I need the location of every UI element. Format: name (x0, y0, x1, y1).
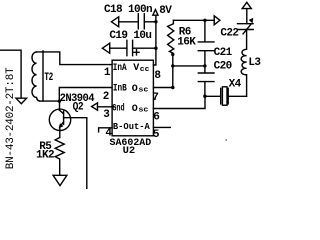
junction dot rail/C21 (203, 19, 206, 22)
connector arrow pin 3 Gnd (92, 103, 98, 110)
label B-Out-A (113, 121, 150, 132)
svg-text:7: 7 (152, 92, 158, 104)
label InA (113, 63, 127, 74)
wire C19 to 8V rail (133, 47, 156, 49)
label InB (113, 84, 127, 95)
svg-text:O: O (132, 104, 138, 115)
svg-text:8V: 8V (159, 5, 172, 17)
label R5 (39, 141, 52, 153)
variable capacitor C22 (238, 24, 254, 34)
wire C19 arrow to cap (110, 47, 127, 49)
capacitor C20 (198, 66, 214, 96)
svg-text:sc: sc (138, 107, 148, 115)
svg-text:Gnd: Gnd (112, 102, 124, 114)
junction dot collector node (58, 99, 61, 102)
junction dot R6/C-tap (171, 64, 174, 67)
connector arrow right (osc out) (214, 16, 220, 25)
wire off-page left rail (0, 50, 21, 98)
junction dot R6 bottom (171, 53, 174, 56)
svg-text:16K: 16K (177, 37, 196, 49)
pin number 6 (153, 111, 159, 123)
svg-text:C19 10u: C19 10u (109, 30, 151, 42)
crystal X4 (205, 87, 247, 105)
label Gnd (112, 102, 124, 114)
label 16K (177, 37, 196, 49)
svg-text:L3: L3 (248, 57, 261, 69)
wire T2 top to pin 1 (step) (37, 52, 112, 65)
svg-text:BN-43-2402-2T:8T: BN-43-2402-2T:8T (5, 67, 17, 169)
wire R6 top rail (173, 19, 214, 21)
connector arrow down T2 left (16, 98, 27, 104)
label SA602AD (110, 137, 152, 149)
label BN-43-2402-2T:8T (5, 67, 17, 169)
label C22 (220, 27, 238, 39)
pin number 4 (105, 127, 112, 139)
pin number 2 (103, 91, 109, 103)
junction dot pin7/R6 (171, 86, 174, 89)
svg-text:InB: InB (113, 84, 127, 95)
antenna arrow top right (242, 2, 251, 8)
plus sign C19 (134, 50, 139, 55)
label C21 (214, 47, 233, 59)
wire antenna to C22 (246, 9, 248, 24)
op-amp box U2 SA602AD (112, 60, 153, 136)
wire Q2 emitter to R5 (59, 130, 61, 137)
wire pin 4 stub (99, 128, 112, 132)
transformer T2 winding (32, 52, 40, 101)
svg-text:B-Out-A: B-Out-A (113, 121, 150, 132)
wire pin 6 to crystal node (153, 96, 205, 108)
label R6 (179, 26, 191, 38)
connector arrow C18 left (111, 17, 118, 27)
pin number 7 (152, 92, 158, 104)
resistor R6 (168, 20, 174, 54)
svg-text:5: 5 (153, 129, 160, 141)
pin number 8 (154, 70, 161, 82)
arrowhead C22 trimmer (249, 18, 254, 24)
wire pin 3 (98, 106, 115, 108)
svg-text:C22: C22 (220, 27, 238, 39)
resistor R5 (55, 138, 64, 175)
label T2 (44, 72, 52, 84)
transistor Q2 (49, 101, 87, 130)
svg-text:T2: T2 (44, 72, 52, 84)
pin number 3 (103, 109, 110, 121)
power symbol 8V triangle (153, 10, 158, 16)
junction dot C21/C20 (203, 64, 206, 67)
label L3 (248, 57, 261, 69)
wire pin 5 stub (153, 126, 170, 128)
wire R6 bottom down (172, 54, 174, 87)
wire T2 bottom to junction (40, 100, 60, 102)
svg-text:C21: C21 (214, 47, 233, 59)
label Vcc (133, 63, 149, 74)
wire tap to C21/C20 node (173, 65, 205, 67)
svg-text:1: 1 (104, 67, 111, 79)
svg-text:X4: X4 (229, 79, 242, 91)
capacitor C18 (138, 14, 144, 29)
label 8V (159, 5, 172, 17)
wire pin 7 to R6 bottom (153, 87, 172, 89)
ground symbol under R5 (53, 175, 67, 185)
wire C18 arrow to cap (119, 21, 138, 23)
capacitor C19 polarized (127, 40, 133, 55)
wire Q2 base down to bottom edge (86, 118, 88, 189)
pin number 5 (153, 129, 160, 141)
label C20 (214, 60, 232, 72)
label Osc pin6 (132, 104, 149, 115)
svg-text:3: 3 (103, 109, 110, 121)
label Q2 (73, 101, 84, 113)
wire pin 2 to collector node (59, 88, 112, 102)
svg-text:InA: InA (113, 63, 127, 74)
stray mark (225, 139, 227, 141)
connector arrow C19 left (102, 43, 109, 53)
svg-text:C20: C20 (214, 60, 232, 72)
label 2N3904 (60, 93, 95, 105)
svg-text:6: 6 (153, 111, 159, 123)
svg-text:1K2: 1K2 (36, 150, 54, 162)
svg-text:Q2: Q2 (73, 101, 84, 113)
junction dot C19/8V (154, 47, 157, 50)
pin number 1 (104, 67, 111, 79)
wire C18 to 8V rail (144, 21, 156, 23)
svg-text:O: O (132, 84, 138, 95)
junction dot C18/8V (154, 20, 157, 23)
label 1K2 (36, 150, 54, 162)
capacitor C21 (198, 20, 214, 66)
svg-text:2: 2 (103, 91, 109, 103)
inductor L3 (241, 30, 246, 97)
svg-text:cc: cc (140, 66, 150, 74)
label U2 (123, 145, 136, 157)
wire 8V rail down to pin 8 (153, 16, 156, 65)
label C18 (104, 4, 152, 16)
junction dot crystal node (203, 95, 206, 98)
svg-text:sc: sc (138, 87, 148, 95)
svg-text:U2: U2 (123, 145, 136, 157)
label C19 (109, 30, 151, 42)
svg-text:4: 4 (105, 127, 112, 139)
svg-text:V: V (133, 63, 139, 74)
svg-text:8: 8 (154, 70, 161, 82)
label X4 (229, 79, 242, 91)
label Osc pin7 (132, 84, 149, 95)
transformer T2 secondary line (42, 51, 44, 101)
